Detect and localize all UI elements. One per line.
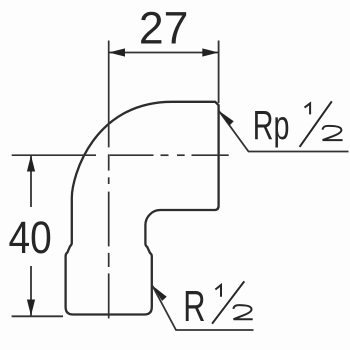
- fraction denominator "2" (R 1/2): [234, 305, 253, 319]
- fraction slash (R 1/2): [212, 281, 244, 323]
- fraction numerator "1" (R 1/2): [215, 285, 221, 297]
- pipe elbow body outline: [66, 102, 219, 315]
- dimension 40: bottom extension line: [12, 315, 63, 317]
- svg-text:40: 40: [9, 212, 52, 263]
- horizontal centerline (dash-dot), doubles as extension line of dim 40: [12, 154, 229, 156]
- dimension 40: top arrowhead: [27, 155, 35, 171]
- svg-text:R: R: [183, 283, 205, 332]
- dimension 27: right extension line: [218, 41, 220, 104]
- dimension 27: dimension line: [109, 52, 219, 54]
- leader arrowhead (Rp 1/2): [219, 111, 234, 126]
- dimension 40: dimension line lower part: [30, 266, 32, 316]
- dimension 27: left arrowhead: [109, 48, 125, 56]
- dimension 27: right arrowhead: [202, 48, 218, 56]
- dimension 40: dimension line upper part: [30, 155, 32, 207]
- leader line for R 1/2 thread callout: [152, 286, 253, 331]
- fraction slash (Rp 1/2): [300, 101, 332, 147]
- leader arrowhead (R 1/2): [152, 286, 166, 301]
- fraction numerator "1" (Rp 1/2): [305, 103, 311, 114]
- svg-text:Rp: Rp: [253, 103, 290, 148]
- svg-text:27: 27: [139, 3, 189, 53]
- leader line for Rp 1/2 thread callout: [219, 111, 349, 152]
- dimension 40: bottom arrowhead: [27, 300, 35, 316]
- vertical centerline (dash-dot), doubles as left extension line of dim 27: [108, 41, 110, 319]
- fraction denominator "2" (Rp 1/2): [323, 126, 343, 140]
